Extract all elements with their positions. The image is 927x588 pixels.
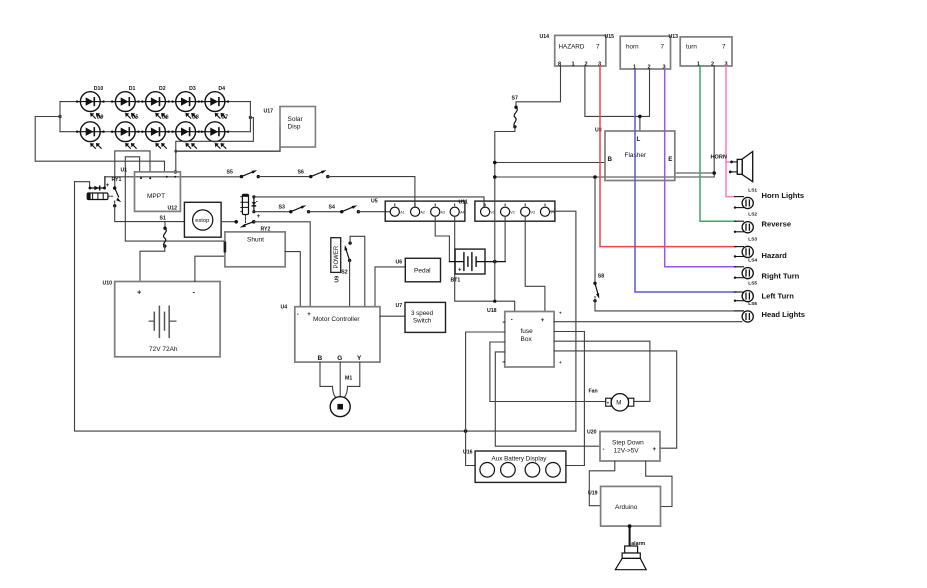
wire pedal to motor controller bbox=[375, 267, 405, 307]
svg-text:Switch: Switch bbox=[413, 318, 432, 325]
svg-text:A4: A4 bbox=[460, 211, 464, 215]
wire array left output to MPPT pin3 bbox=[35, 117, 164, 172]
svg-text:A2: A2 bbox=[421, 211, 425, 215]
svg-text:+: + bbox=[137, 288, 142, 297]
connector U14 HAZARD bbox=[540, 34, 606, 67]
switch S4 bbox=[329, 205, 361, 214]
node flasher B junction bbox=[493, 161, 497, 165]
svg-text:Solar: Solar bbox=[288, 116, 304, 123]
connector U13 turn bbox=[669, 34, 733, 67]
wire accessory branch to S8 bbox=[594, 177, 596, 283]
battery BT1 bbox=[449, 249, 505, 283]
switch S2 power bbox=[331, 238, 352, 283]
svg-text:RY1: RY1 bbox=[112, 177, 122, 183]
svg-text:D6: D6 bbox=[162, 114, 169, 120]
switch RY1 contact bbox=[108, 186, 121, 207]
node accessory junction bbox=[493, 175, 497, 179]
svg-text:U4: U4 bbox=[281, 305, 288, 311]
wire S7 to power rail vertical bbox=[495, 127, 515, 301]
wire S2 bottom to motor controller bbox=[349, 260, 351, 306]
wire motor phase Y bbox=[348, 362, 360, 386]
svg-text:U11: U11 bbox=[459, 200, 468, 206]
svg-text:+: + bbox=[541, 318, 545, 324]
motor M2 fan bbox=[589, 389, 634, 411]
svg-text:7: 7 bbox=[596, 44, 600, 51]
motor M1 bbox=[330, 376, 352, 417]
svg-text:12V->5V: 12V->5V bbox=[614, 448, 640, 455]
svg-text:MPPT: MPPT bbox=[147, 193, 165, 200]
switch S3 bbox=[279, 205, 311, 214]
fuse box U18 bbox=[487, 308, 562, 367]
svg-text:G: G bbox=[337, 355, 342, 362]
svg-text:S4: S4 bbox=[329, 205, 335, 211]
svg-text:horn: horn bbox=[626, 44, 639, 51]
svg-text:U14: U14 bbox=[540, 34, 550, 40]
svg-text:L: L bbox=[637, 136, 641, 143]
svg-text:D7: D7 bbox=[221, 114, 228, 120]
photodiode D1 bbox=[111, 86, 140, 118]
photodiode D3 bbox=[171, 86, 200, 118]
svg-text:U17: U17 bbox=[264, 109, 274, 115]
wire hazard pin3 red to hazard lamp bbox=[600, 66, 736, 247]
pushbutton U12 estop bbox=[184, 202, 221, 237]
node S7 rail fuse junction bbox=[493, 300, 496, 303]
svg-text:LS2: LS2 bbox=[748, 212, 757, 218]
connector U11 bbox=[459, 200, 555, 222]
wire U5 pin3 to BT1 minus bbox=[435, 216, 449, 261]
svg-text:D5: D5 bbox=[132, 114, 139, 120]
svg-text:Pedal: Pedal bbox=[414, 267, 431, 274]
microcontroller U19 arduino bbox=[588, 486, 661, 526]
pedal U6 bbox=[396, 258, 441, 282]
svg-text:S1: S1 bbox=[160, 216, 166, 222]
wire fuse right pin3 to fan right bbox=[554, 341, 650, 401]
svg-text:U5: U5 bbox=[371, 199, 378, 205]
wire RY2 diode bottom to S3 bbox=[254, 211, 291, 213]
svg-text:B: B bbox=[318, 355, 323, 362]
svg-text:U18: U18 bbox=[487, 308, 497, 314]
svg-text:POWER: POWER bbox=[334, 245, 340, 268]
svg-text:B: B bbox=[608, 156, 613, 163]
node flasher L junction bbox=[638, 115, 642, 119]
svg-text:Disp: Disp bbox=[288, 124, 301, 131]
wire solar array left rail bbox=[59, 102, 61, 132]
svg-text:Right Turn: Right Turn bbox=[762, 272, 800, 281]
svg-text:U20: U20 bbox=[587, 430, 597, 436]
wire S6 down to U5 pin2 bbox=[328, 177, 415, 208]
voltage regulator U20 step down bbox=[587, 430, 660, 462]
svg-text:U7: U7 bbox=[396, 303, 403, 309]
lamp LS5 Left Turn bbox=[734, 281, 794, 302]
svg-text:RY2: RY2 bbox=[261, 227, 271, 233]
switch S6 bbox=[298, 170, 330, 179]
svg-text:+: + bbox=[106, 183, 110, 189]
battery U10 72V bbox=[103, 281, 221, 357]
svg-text:A1: A1 bbox=[400, 211, 404, 215]
display U16 aux battery display bbox=[463, 450, 566, 483]
svg-text:Shunt: Shunt bbox=[247, 237, 264, 244]
svg-text:LS4: LS4 bbox=[748, 258, 757, 264]
svg-text:-: - bbox=[297, 312, 299, 318]
svg-text:U10: U10 bbox=[103, 281, 113, 287]
svg-text:Left Turn: Left Turn bbox=[762, 292, 795, 301]
svg-text:Fan: Fan bbox=[589, 389, 598, 395]
wire accessory line to turn pin2 bbox=[495, 66, 714, 177]
wire motor phase B bbox=[320, 362, 333, 386]
svg-text:U15: U15 bbox=[605, 34, 615, 40]
wire S3 to S4 bbox=[309, 211, 342, 213]
svg-text:+: + bbox=[458, 268, 462, 274]
svg-text:-: - bbox=[511, 318, 513, 324]
3 speed switch U7 bbox=[396, 302, 446, 332]
wire RY2 contact to motor controller plus bbox=[254, 222, 311, 307]
wire battery minus to shunt bbox=[195, 256, 225, 281]
wire step down gnd to arduino right bbox=[646, 461, 672, 507]
wire flasher E to turn pin2 line bbox=[675, 172, 714, 174]
svg-text:Reverse: Reverse bbox=[762, 219, 792, 228]
svg-text:7: 7 bbox=[722, 44, 726, 51]
U17 Solar Disp box bbox=[264, 107, 316, 148]
svg-text:Head Lights: Head Lights bbox=[762, 310, 805, 319]
lamp LS4 Right Turn bbox=[734, 258, 800, 281]
svg-text:Horn Lights: Horn Lights bbox=[762, 191, 805, 200]
svg-text:V2: V2 bbox=[510, 211, 514, 215]
svg-text:Flasher: Flasher bbox=[625, 152, 648, 159]
svg-text:V1: V1 bbox=[491, 211, 495, 215]
wire fuse right pin2 to aux display right bbox=[554, 332, 584, 466]
wire turn pin3 pink to horn speaker and horn lamp bbox=[726, 66, 735, 197]
svg-text:72V 72Ah: 72V 72Ah bbox=[149, 346, 178, 353]
wire solar array top row rail bbox=[60, 101, 250, 103]
svg-text:E: E bbox=[668, 156, 672, 163]
wire U5 pin4 to fuse box input bbox=[455, 216, 515, 311]
svg-text:S2: S2 bbox=[341, 270, 347, 276]
node solar disp branch bbox=[174, 150, 177, 153]
switch S1 pigtail to battery plus bbox=[140, 216, 167, 282]
photodiode D2 bbox=[141, 86, 170, 118]
svg-text:+: + bbox=[607, 400, 610, 405]
svg-text:Aux Battery Display: Aux Battery Display bbox=[492, 455, 548, 462]
wire flasher B to power rail bbox=[495, 162, 605, 164]
svg-text:Box: Box bbox=[521, 336, 533, 343]
wire estop to RY2 contact bbox=[221, 221, 236, 223]
svg-text:S7: S7 bbox=[512, 96, 518, 102]
wire U11 pin3 to fuse box plus bbox=[525, 216, 545, 311]
svg-text:S8: S8 bbox=[598, 274, 604, 280]
connector U5 bbox=[371, 199, 465, 222]
svg-text:Hazard: Hazard bbox=[762, 251, 788, 260]
wire accessory bus across MPPT bbox=[105, 176, 242, 178]
svg-text:LS5: LS5 bbox=[748, 281, 757, 287]
photodiode D7 bbox=[201, 114, 230, 148]
svg-text:LS1: LS1 bbox=[748, 188, 757, 194]
wire motor phase G bbox=[339, 362, 341, 397]
wire array right output down to MPPT pin4 bbox=[176, 118, 254, 172]
wire flasher L net bbox=[585, 66, 650, 116]
wire flasher L pin bbox=[639, 116, 641, 131]
lamp LS3 Hazard bbox=[734, 236, 787, 259]
svg-text:U9: U9 bbox=[335, 276, 341, 283]
svg-text:HORN: HORN bbox=[711, 154, 727, 160]
switch S7 pigtail bbox=[512, 96, 518, 129]
lamp LS1 Horn Lights bbox=[734, 188, 804, 209]
svg-text:S3: S3 bbox=[279, 205, 285, 211]
wire RY2 coil top feed to U11 pin1 bbox=[254, 197, 484, 207]
svg-text:U13: U13 bbox=[669, 34, 679, 40]
svg-text:+: + bbox=[257, 214, 261, 220]
shunt RY2 box bbox=[224, 227, 286, 267]
svg-text:Motor Controller: Motor Controller bbox=[313, 316, 360, 323]
relay RY1 coil and flyback diode bbox=[75, 177, 110, 200]
op-amp U1 MPPT box bbox=[112, 168, 181, 212]
photodiode D10 bbox=[76, 86, 105, 118]
wire S5 to S6 bbox=[258, 176, 311, 178]
svg-text:+: + bbox=[653, 447, 657, 453]
svg-text:V3: V3 bbox=[531, 211, 535, 215]
motor controller U4 bbox=[281, 305, 381, 363]
speaker HORN bbox=[711, 152, 753, 182]
relay RY2 coil connector and flyback diode bbox=[241, 194, 261, 223]
svg-text:+: + bbox=[559, 360, 562, 365]
wire MPPT pin2 loop to RY1 contact bbox=[115, 151, 150, 188]
svg-text:D9: D9 bbox=[97, 114, 104, 120]
node bus pin marks bbox=[140, 176, 176, 179]
speaker alarm bbox=[615, 524, 646, 570]
wire hazard pin8 to S7 bbox=[516, 66, 561, 107]
svg-text:D8: D8 bbox=[192, 114, 199, 120]
wire fuse right pin4 to step down plus bbox=[554, 351, 677, 448]
svg-text:-: - bbox=[603, 447, 605, 453]
relay U8 flasher bbox=[595, 128, 675, 181]
svg-text:BT1: BT1 bbox=[451, 278, 461, 284]
svg-text:S6: S6 bbox=[298, 170, 304, 176]
svg-text:D10: D10 bbox=[94, 86, 104, 92]
svg-text:7: 7 bbox=[661, 44, 665, 51]
wire main ground frame bbox=[75, 182, 576, 431]
svg-text:D3: D3 bbox=[189, 86, 196, 92]
svg-text:Y: Y bbox=[357, 355, 362, 362]
connector U15 horn bbox=[605, 34, 671, 70]
wire U11 pin4 to main frame rail bbox=[550, 211, 576, 431]
svg-text:fuse: fuse bbox=[521, 328, 534, 335]
svg-text:+: + bbox=[307, 312, 311, 318]
wire shunt right to motor controller minus bbox=[285, 252, 300, 307]
svg-text:HAZARD: HAZARD bbox=[559, 44, 585, 51]
wire fuse left pin3 to fan plus bbox=[490, 342, 606, 402]
node BT1 plus junction bbox=[493, 260, 497, 264]
wire fuse left pin4 to step down minus bbox=[495, 352, 600, 446]
switch RY2 contact bbox=[234, 220, 255, 228]
svg-text:LS3: LS3 bbox=[748, 236, 757, 242]
wire solar array right rail bbox=[249, 102, 251, 132]
photodiode D8 bbox=[171, 114, 200, 148]
svg-text:A3: A3 bbox=[441, 211, 445, 215]
svg-text:M: M bbox=[616, 400, 621, 407]
svg-text:S5: S5 bbox=[227, 170, 233, 176]
wire branch to Solar Disp bbox=[176, 127, 280, 151]
svg-text:U16: U16 bbox=[463, 450, 473, 456]
wire fuse left pin2 to aux display rail bbox=[466, 332, 505, 466]
wire pink branch to horn speaker bbox=[726, 161, 731, 163]
wire S2 top to motor controller bbox=[350, 236, 365, 306]
switch S5 bbox=[227, 170, 260, 179]
wire S4 to U5 pin1 bbox=[358, 211, 390, 213]
lamp LS2 Reverse bbox=[734, 212, 791, 233]
svg-text:+: + bbox=[559, 311, 562, 316]
wire horn pin1 blue to left turn lamp bbox=[635, 69, 736, 292]
svg-text:M1: M1 bbox=[345, 376, 352, 382]
wire turn pin1 green to reverse lamp bbox=[700, 66, 736, 221]
svg-text:1: 1 bbox=[572, 61, 575, 67]
node frame aux junction bbox=[464, 429, 468, 433]
svg-text:3 speed: 3 speed bbox=[411, 310, 434, 317]
svg-text:-: - bbox=[256, 200, 258, 206]
wire solar array bottom row rail bbox=[60, 131, 250, 133]
node S8 branch junction bbox=[593, 175, 597, 179]
node array left junction bbox=[58, 115, 61, 118]
node array right junction bbox=[249, 116, 252, 119]
wire RY1 contact to estop bbox=[115, 206, 185, 222]
svg-text:Step Down: Step Down bbox=[612, 439, 644, 446]
svg-text:D4: D4 bbox=[218, 86, 225, 92]
photodiode D9 bbox=[76, 114, 105, 148]
node MPPT pin4 junction bbox=[174, 170, 178, 174]
wire horn pin3 purple to right turn lamp bbox=[665, 69, 736, 267]
wire motor controller to 3 speed switch bbox=[380, 315, 405, 317]
wire U11 pin2 to BT1 plus bbox=[504, 216, 506, 261]
svg-text:LS6: LS6 bbox=[748, 301, 757, 307]
lamp LS6 Head Lights bbox=[735, 301, 805, 322]
svg-text:D1: D1 bbox=[129, 86, 136, 92]
wire MPPT pin1 loop to Shunt left bbox=[125, 157, 225, 241]
wire fuse right pin1 to head lights return bbox=[554, 321, 742, 323]
svg-text:D2: D2 bbox=[159, 86, 166, 92]
svg-text:U6: U6 bbox=[396, 260, 403, 266]
svg-text:Arduino: Arduino bbox=[615, 504, 638, 511]
photodiode D5 bbox=[111, 114, 140, 148]
switch S8 bbox=[593, 274, 604, 303]
photodiode D6 bbox=[141, 114, 170, 148]
wire S8 to head lights bbox=[595, 301, 743, 311]
svg-text:U1: U1 bbox=[121, 168, 128, 174]
svg-text:U19: U19 bbox=[588, 491, 598, 497]
node flasher E junction bbox=[712, 171, 716, 175]
wire step down 5V to arduino left bbox=[589, 461, 615, 506]
svg-text:estop: estop bbox=[195, 218, 209, 224]
photodiode D4 bbox=[201, 86, 230, 118]
svg-text:U12: U12 bbox=[168, 206, 178, 212]
svg-text:turn: turn bbox=[686, 44, 697, 51]
